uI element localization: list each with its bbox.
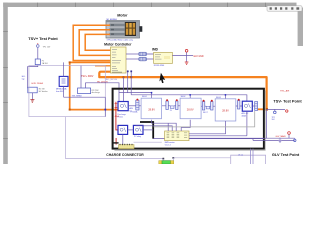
fuse F6 between seg2 seg3 <box>202 102 204 111</box>
wire motor phase A (orange) <box>73 25 110 60</box>
wire TSV- branch (orange) <box>70 62 118 109</box>
precharge resistor K4 <box>133 125 143 134</box>
accumulator container (black box) <box>113 89 264 149</box>
test point TP4 red <box>288 132 291 135</box>
svg-text:F3 200A: F3 200A <box>131 110 139 113</box>
svg-text:Motor: Motor <box>117 13 128 17</box>
ground GLV (purple) <box>278 138 282 142</box>
svg-text:IR155-3204: IR155-3204 <box>154 65 165 67</box>
svg-text:TP1 1kV: TP1 1kV <box>43 46 51 48</box>
wire seg3 to BMS right <box>189 111 247 136</box>
svg-text:TSV-_AIR: TSV-_AIR <box>280 90 290 93</box>
gray room outline <box>154 111 255 127</box>
wire midpoint horizontal <box>64 96 106 98</box>
wire charge loop lavender <box>66 117 164 159</box>
wire K4 to bus <box>143 129 153 131</box>
bus precharge thick black <box>140 122 153 139</box>
svg-text:TSV- Test Point: TSV- Test Point <box>273 98 302 103</box>
motor M1 photo <box>106 21 142 39</box>
wire seg3 to F8 to AIR2 <box>236 105 243 107</box>
wire box top rail 1 <box>119 92 152 94</box>
svg-text:PC relay: PC relay <box>134 136 141 138</box>
fuse F9 main <box>255 102 258 111</box>
wire seg2 seg3 <box>201 105 215 107</box>
svg-text:discharge: discharge <box>92 91 100 94</box>
battery segment 2 <box>180 98 201 119</box>
ground GLV below junction (red) <box>185 62 189 64</box>
wire IMD output <box>172 55 193 57</box>
wires controller into box <box>123 71 131 101</box>
wire K3 K4 <box>128 129 134 131</box>
fuse F1 <box>35 59 40 65</box>
svg-text:28.8V: 28.8V <box>187 107 194 111</box>
svg-text:TSV+ 300V: TSV+ 300V <box>81 75 94 78</box>
junction dots top rails <box>151 92 153 94</box>
svg-text:SEG1: SEG1 <box>142 96 147 98</box>
wire jog lavender <box>134 141 162 143</box>
wires GLV out of box <box>189 137 295 139</box>
svg-text:Motor Controller: Motor Controller <box>104 43 132 47</box>
wire TSV- down <box>266 109 268 138</box>
resistor R2 discharge <box>78 88 91 94</box>
ferrite bead FB1 <box>139 52 147 56</box>
node IMD junction <box>186 52 188 62</box>
svg-text:GLV_MAIN: GLV_MAIN <box>276 135 287 138</box>
svg-text:fuse 80V: fuse 80V <box>56 91 64 93</box>
ground TSV (red) <box>30 100 34 103</box>
black border step bottom-left <box>113 142 119 144</box>
svg-text:28.8V: 28.8V <box>222 108 229 112</box>
svg-text:R 1kΩ: R 1kΩ <box>118 116 124 118</box>
fuse F3 <box>136 100 139 110</box>
svg-text:1A 1kV: 1A 1kV <box>42 62 49 65</box>
wire bus to GLV out <box>153 138 264 140</box>
svg-text:tap: tap <box>22 77 25 80</box>
junction controller bottom pins <box>127 71 129 73</box>
svg-text:HV divider: HV divider <box>39 90 48 93</box>
test point TP2 <box>274 111 277 114</box>
wire F1 down and jog <box>28 65 38 89</box>
svg-text:SEG3: SEG3 <box>216 97 221 99</box>
test point TP1 <box>37 45 40 48</box>
box shadow <box>115 91 266 151</box>
svg-text:LV out: LV out <box>238 153 244 156</box>
svg-text:IMD: IMD <box>152 47 159 51</box>
junction green conn left <box>163 158 165 160</box>
wire rail stub into accumulator <box>257 108 267 110</box>
connector J2 (green) <box>159 161 162 164</box>
battery segment 1 <box>141 98 161 119</box>
svg-text:Orion 2: Orion 2 <box>165 144 171 146</box>
svg-text:HVD 250kΩ: HVD 250kΩ <box>32 83 44 85</box>
wire F2 bottom <box>63 86 65 97</box>
charge connector strip J1 <box>119 145 135 149</box>
AIR1 relay K1 <box>118 102 128 111</box>
BMS U3 <box>165 131 189 141</box>
wire seg1 seg2 <box>162 105 180 107</box>
wire controller to IMD upper <box>126 53 138 55</box>
IMD U2 <box>154 52 173 63</box>
svg-text:28.8V: 28.8V <box>148 107 155 111</box>
fuse F7 between seg2 seg3 <box>211 102 213 111</box>
fuse F4 between seg1 seg2 <box>166 101 168 110</box>
test point TP5 blue <box>294 139 296 141</box>
svg-text:HV_DISCH: HV_DISCH <box>97 81 108 83</box>
junction rail corner <box>265 108 268 111</box>
wire controller to IMD lower <box>126 58 138 60</box>
wire segment taps <box>152 93 226 99</box>
svg-text:TSV+ Test Point: TSV+ Test Point <box>28 36 58 41</box>
svg-text:TSV_MEAS: TSV_MEAS <box>72 94 83 97</box>
AIR2 relay K2 <box>242 101 252 111</box>
wire discharge to box <box>85 83 119 102</box>
svg-text:CHARGE CONNECTOR: CHARGE CONNECTOR <box>106 153 144 157</box>
viewer toolbar chip <box>267 6 302 11</box>
fuse F2 (blue square) <box>59 76 68 86</box>
wire AIR1 right <box>128 105 136 107</box>
test point (red) above junction <box>185 50 188 53</box>
motor controller U1 <box>111 47 127 73</box>
wire beads to IMD <box>147 54 154 59</box>
wire R2 feeds <box>81 66 85 88</box>
precharge relay K3 <box>118 125 128 134</box>
sheet frame right band (partial) <box>298 8 303 47</box>
wires BMS feeds <box>136 120 191 131</box>
junction orange cross <box>104 109 106 111</box>
wire F3 to segment1 <box>139 105 141 107</box>
svg-text:3 Phase AC Motor cable assy: 3 Phase AC Motor cable assy <box>107 38 133 41</box>
svg-text:SEG2: SEG2 <box>181 96 186 98</box>
wire K3 bottom down <box>122 134 124 144</box>
wire TSV+ rail (orange) <box>99 72 266 110</box>
cursor <box>159 73 165 83</box>
wire HV stub <box>95 65 111 67</box>
wire TSV- testpoint <box>267 108 285 110</box>
wire motor phase B (orange) <box>79 30 110 56</box>
sheet frame top band <box>3 3 296 7</box>
fuse F5 between seg1 seg2 <box>176 101 178 110</box>
sheet frame left band <box>3 3 8 164</box>
red fuse wire left <box>116 102 118 130</box>
connector between fuses <box>170 106 174 109</box>
wire into green conn <box>163 158 230 161</box>
junction rail x123 <box>122 76 124 78</box>
ferrite bead FB2 <box>139 57 147 61</box>
wire F2 top <box>63 62 65 76</box>
battery segment 3 <box>215 99 236 121</box>
junction TSV- corner <box>69 61 71 63</box>
resistor R1 <box>28 87 37 93</box>
svg-text:GLV GND: GLV GND <box>193 56 204 58</box>
wire AIR2 to F9 <box>252 105 254 107</box>
wires below box <box>251 149 253 164</box>
svg-text:F6 F7: F6 F7 <box>203 112 208 114</box>
junction rail x131 <box>130 76 132 78</box>
GLV harness outline rect <box>231 155 266 164</box>
svg-text:J3: J3 <box>170 110 172 112</box>
wire right edge down <box>104 97 106 116</box>
harness outline (lavender rect) <box>29 66 105 117</box>
wire motor phase C (orange) <box>85 34 110 50</box>
fuse F8 right of seg3 <box>238 101 240 110</box>
red wire to charge connector <box>115 138 117 145</box>
wire R1 to ground <box>31 93 33 100</box>
svg-text:GLV Test Point: GLV Test Point <box>272 152 300 157</box>
wire box top rail 2 <box>131 95 247 101</box>
test point TP3 <box>286 110 288 112</box>
wire TP1 down <box>37 48 39 59</box>
